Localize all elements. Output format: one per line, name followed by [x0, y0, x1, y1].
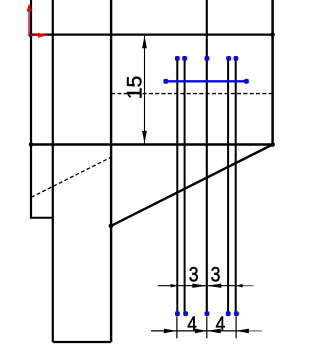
svg-text:3: 3 — [211, 263, 221, 287]
svg-text:4: 4 — [187, 313, 197, 336]
svg-text:4: 4 — [216, 313, 226, 336]
svg-text:15: 15 — [123, 76, 147, 100]
svg-text:3: 3 — [189, 263, 199, 287]
